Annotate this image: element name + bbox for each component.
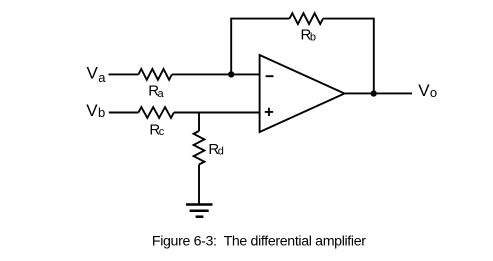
- svg-text:Rb: Rb: [301, 27, 316, 44]
- svg-text:Rd: Rd: [208, 141, 223, 158]
- resistor Rb: [290, 13, 323, 24]
- svg-text:Rc: Rc: [149, 122, 164, 139]
- wire feedback top right segment: [323, 18, 374, 20]
- wire feedback left vertical: [230, 19, 232, 75]
- resistor Rc: [138, 107, 174, 118]
- op-amp inverting input marker (minus): [266, 75, 274, 77]
- resistor Ra: [138, 69, 172, 80]
- wire Va input: [109, 73, 139, 75]
- ground: [186, 205, 213, 217]
- svg-text:Vo: Vo: [418, 81, 437, 100]
- resistor Rd: [194, 131, 205, 165]
- wire output: [345, 92, 413, 94]
- wire feedback right vertical: [373, 18, 375, 94]
- svg-text:Figure 6-3: The differential: Figure 6-3: The differential amplifier: [152, 234, 366, 250]
- op-amp non-inverting input marker (plus): [265, 108, 273, 116]
- node output junction dot: [371, 90, 377, 96]
- wire Rd branch upper: [198, 113, 200, 132]
- node A junction dot: [228, 71, 234, 77]
- svg-text:Ra: Ra: [148, 82, 164, 100]
- wire Rc to non-inverting input: [174, 112, 261, 114]
- svg-text:Vb: Vb: [86, 101, 105, 120]
- svg-text:Va: Va: [87, 64, 107, 85]
- op-amp U1 triangle: [260, 55, 345, 132]
- wire Rd to ground: [198, 165, 200, 205]
- wire Vb input: [109, 112, 139, 114]
- wire Ra to inverting input: [172, 73, 261, 75]
- wire feedback top left segment: [230, 18, 289, 20]
